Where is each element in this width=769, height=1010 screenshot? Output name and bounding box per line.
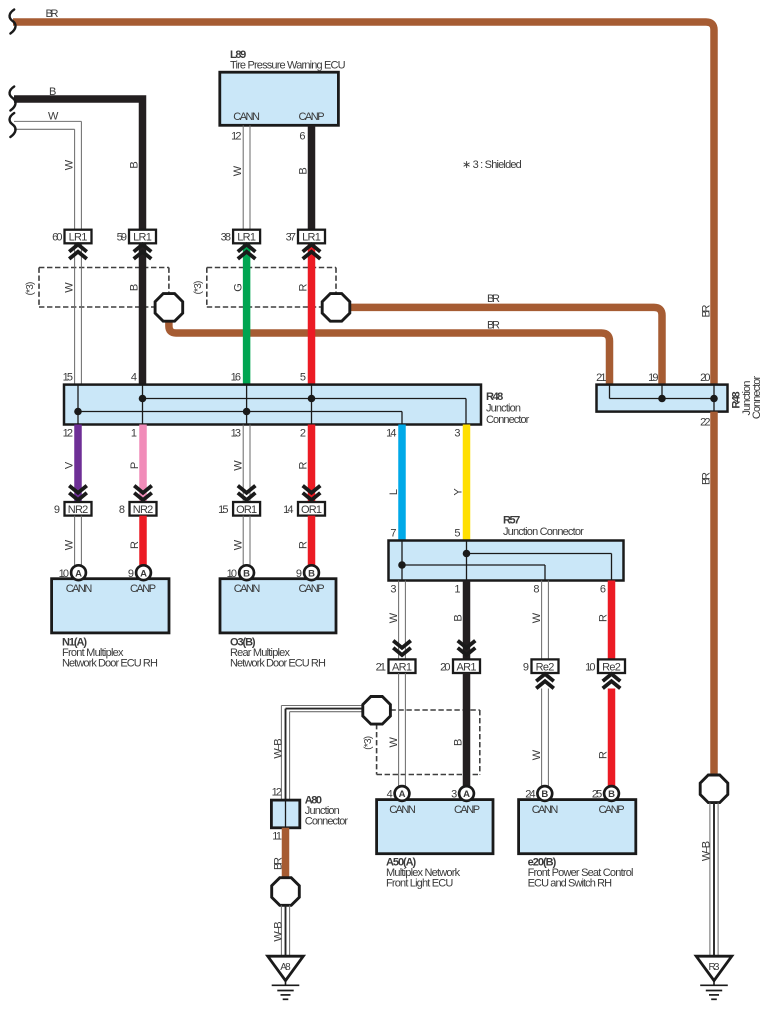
svg-text:B: B	[452, 739, 464, 746]
svg-text:1: 1	[454, 584, 460, 596]
svg-text:4: 4	[131, 372, 137, 384]
shield box (*3) label, upper middle	[193, 281, 204, 295]
svg-text:LR1: LR1	[302, 232, 321, 244]
junction dot pin 15	[74, 408, 82, 416]
svg-text:B: B	[128, 284, 140, 291]
terminal circle B pin 24 (e20)	[537, 786, 552, 801]
label W rotated above LR1 60	[64, 159, 76, 170]
label Connector (A80)	[305, 816, 349, 828]
svg-text:W: W	[388, 612, 400, 623]
svg-text:2: 2	[300, 428, 306, 440]
svg-text:R: R	[129, 541, 141, 549]
svg-text:20: 20	[700, 372, 710, 384]
terminal circle A pin 10 (N1)	[71, 565, 86, 580]
svg-text:60: 60	[52, 232, 62, 244]
label CANP inside O3	[298, 583, 324, 595]
label BR rotated (A80 drain)	[272, 857, 284, 870]
svg-text:W: W	[64, 282, 76, 293]
svg-text:3: 3	[390, 584, 396, 596]
label Front Power Seat Control	[528, 867, 634, 879]
R48 internal pass-through 5-2	[311, 385, 313, 425]
wire W-B from octagon 4 to ground A8	[281, 905, 289, 956]
svg-text:6: 6	[299, 131, 305, 143]
shield octagon 1 (W/B pair)	[155, 294, 183, 322]
wire W from LR1 60 to R48 pin 15	[75, 243, 82, 385]
svg-text:8: 8	[533, 584, 539, 596]
shield dashed box for W/B pair (net *3, upper left)	[39, 268, 169, 308]
svg-text:CANP: CANP	[130, 583, 156, 595]
R48 internal pass-through 15-12	[77, 385, 79, 425]
ECU box e20(B) Front Power Seat Control ECU and Switch RH	[519, 800, 636, 854]
label W rotated above AR1 21	[388, 612, 400, 623]
pin 3 label (R57)	[390, 584, 396, 596]
wire R from R48 pin 2 to OR1 14	[308, 425, 316, 502]
label CANP inside e20	[598, 804, 624, 816]
label R rotated above Re2 10	[597, 614, 609, 622]
svg-text:16: 16	[231, 372, 241, 384]
pin 59 label	[117, 232, 127, 244]
svg-text:Tire Pressure Warning ECU: Tire Pressure Warning ECU	[230, 60, 346, 72]
svg-text:W: W	[48, 111, 59, 123]
svg-text:38: 38	[221, 232, 231, 244]
svg-text:B: B	[541, 789, 548, 800]
pin 10 label (N1 CANN)	[59, 568, 69, 580]
label Junction (A80)	[305, 805, 340, 817]
wire BR shield drain from octagon 1 to right R48 pin 21	[169, 318, 610, 385]
label B rotated above AR1 20	[452, 614, 464, 621]
svg-text:W: W	[232, 165, 244, 176]
wire B from break to LR1 pin 59	[14, 99, 143, 230]
label B on horizontal wire	[49, 86, 56, 98]
label BR on top feed wire	[46, 8, 59, 20]
svg-text:Junction: Junction	[486, 403, 521, 415]
label N1(A)	[62, 637, 87, 649]
label CANN inside L89	[233, 111, 260, 123]
connector LR1 pin 59	[129, 230, 156, 244]
pin 22 label (right bar)	[700, 417, 710, 429]
chevron down above OR1 14	[303, 486, 321, 500]
svg-text:LR1: LR1	[69, 232, 88, 244]
label R rotated above O3 CANP	[297, 541, 309, 549]
R48 internal CANP bus line (pins 4,5,3)	[143, 399, 467, 425]
svg-text:(*3): (*3)	[25, 282, 36, 296]
svg-text:9: 9	[128, 568, 134, 580]
svg-text:W: W	[388, 736, 400, 747]
svg-text:20: 20	[440, 662, 450, 674]
svg-text:4: 4	[387, 789, 393, 801]
label Multiplex Network	[386, 867, 461, 879]
svg-text:BR: BR	[46, 8, 59, 20]
terminal circle B pin 25 (e20)	[604, 786, 619, 801]
svg-text:21: 21	[376, 662, 386, 674]
svg-text:10: 10	[227, 568, 237, 580]
break symbol on B wire	[10, 87, 16, 111]
wire R from R57 pin 6 to Re2 10	[608, 581, 616, 660]
svg-text:CANN: CANN	[532, 804, 559, 816]
svg-text:21: 21	[596, 372, 606, 384]
wire L from R48 pin 14 to R57 pin 7	[398, 425, 406, 541]
svg-text:19: 19	[648, 372, 658, 384]
label BR rotated below right R48	[700, 472, 712, 485]
label CANN inside e20	[532, 804, 559, 816]
wire W from R57 pin 3 to AR1 21	[399, 581, 406, 659]
junction dot pin 19 (right bar)	[658, 395, 666, 403]
break symbol on BR feed	[10, 10, 16, 34]
connector OR1 pin 14	[298, 502, 325, 516]
svg-text:W–B: W–B	[272, 738, 284, 758]
connector AR1 pin 20	[453, 659, 480, 673]
chevron up under LR1 38	[238, 245, 256, 259]
wire W from AR1 21 to A50 CANN	[399, 673, 406, 787]
R57 internal CANN line (pins 7,8)	[402, 565, 545, 581]
junction dot pin 5	[308, 395, 316, 403]
svg-text:12: 12	[231, 131, 241, 143]
svg-text:B: B	[308, 568, 315, 579]
terminal circle A pin 9 (N1)	[136, 565, 151, 580]
svg-text:7: 7	[390, 528, 396, 540]
wire W from R57 pin 8 to Re2 9	[542, 581, 549, 660]
svg-text:B: B	[452, 614, 464, 621]
junction connector R48 (left bar)	[64, 385, 481, 425]
svg-text:9: 9	[296, 568, 302, 580]
wire W from Re2 9 to e20 CANN	[542, 689, 549, 787]
svg-text:A: A	[75, 568, 82, 579]
svg-text:CANN: CANN	[234, 583, 261, 595]
wire BR from A80 pin 11 to octagon	[282, 828, 290, 879]
label R57	[503, 515, 520, 527]
label Connector right bar (rotated)	[751, 376, 763, 420]
label CANN inside A50	[389, 804, 416, 816]
pin 21 label (AR1)	[376, 662, 386, 674]
R48 internal pass-through 16-13	[246, 385, 248, 425]
pin 1 label	[131, 428, 137, 440]
pin 15 label (OR1)	[218, 504, 228, 516]
svg-text:11: 11	[272, 831, 282, 843]
label L rotated	[388, 489, 400, 495]
ground A8	[268, 956, 304, 999]
svg-text:R: R	[597, 751, 609, 759]
terminal circle A pin 3 (A50)	[459, 786, 474, 801]
svg-text:Junction Connector: Junction Connector	[503, 526, 584, 538]
shield octagon right (near R3)	[700, 775, 728, 803]
connector NR2 pin 9	[65, 502, 92, 516]
label Network Door ECU RH (O3)	[230, 658, 326, 670]
svg-text:10: 10	[585, 662, 595, 674]
svg-text:(*3): (*3)	[193, 281, 204, 295]
svg-text:LR1: LR1	[237, 232, 256, 244]
svg-text:A: A	[399, 789, 406, 800]
svg-text:6: 6	[600, 584, 606, 596]
label W-B rotated (right)	[700, 841, 712, 861]
wire BR shield drain from octagon 2 to right R48 pin 19	[348, 307, 662, 384]
ECU box N1(A) Front Multiplex Network Door ECU RH	[52, 579, 169, 633]
pin 20 label (right bar)	[700, 372, 710, 384]
shield dashed box for G/R pair (net *3, upper middle)	[207, 268, 336, 308]
pin 11 label (A80)	[272, 831, 282, 843]
shield dashed box for W/B pair at A50 (net *3)	[377, 710, 480, 775]
label e20(B)	[528, 857, 557, 869]
junction dot pin 16	[243, 408, 251, 416]
label B rotated (shielded B)	[128, 284, 140, 291]
pin 5 label (R57)	[454, 528, 460, 540]
wire R from OR1 14 to O3 CANP	[308, 516, 316, 566]
svg-text:3: 3	[454, 428, 460, 440]
wire V from R48 pin 12 to NR2 9	[74, 425, 82, 502]
wire W from L89 CANN to LR1 38	[243, 125, 250, 230]
label W rotated above O3 CANN	[232, 539, 244, 550]
svg-text:15: 15	[218, 504, 228, 516]
label R rotated above N1 CANP	[129, 541, 141, 549]
label Junction Connector (R57)	[503, 526, 584, 538]
pin 7 label (R57)	[390, 528, 396, 540]
svg-text:V: V	[64, 461, 76, 469]
terminal circle A pin 4 (A50)	[395, 786, 410, 801]
pin 10 label (O3 CANN)	[227, 568, 237, 580]
pin 15 label	[63, 372, 73, 384]
wire W-B from shield octagon to A80 pin 12	[281, 706, 362, 801]
connector AR1 pin 21	[389, 659, 416, 673]
svg-text:CANN: CANN	[389, 804, 416, 816]
connector LR1 pin 37	[298, 230, 325, 244]
pin 12 of L89	[231, 131, 241, 143]
svg-text:24: 24	[525, 789, 535, 801]
svg-text:25: 25	[592, 789, 602, 801]
pin 13 label	[231, 428, 241, 440]
label A80	[305, 795, 322, 807]
junction dot R57 pin 7	[398, 561, 406, 569]
pin 19 label (right bar)	[648, 372, 658, 384]
label P rotated	[129, 462, 141, 469]
chevron down above AR1 20	[458, 641, 476, 655]
svg-text:CANP: CANP	[454, 804, 480, 816]
R48 internal CANN bus line (pins 15,16,14)	[78, 412, 402, 425]
svg-text:CANN: CANN	[233, 111, 260, 123]
pin 25 label (e20 CANP)	[592, 789, 602, 801]
svg-text:BR: BR	[272, 857, 284, 870]
label BR on upper drain wire	[487, 293, 500, 305]
wire BR main feed (top, runs right and down right side)	[13, 22, 714, 385]
wire B from AR1 20 to A50 CANP	[463, 673, 471, 787]
label ECU and Switch RH	[528, 878, 613, 890]
pin 9 label (NR2)	[54, 504, 60, 516]
connector NR2 pin 8	[130, 502, 157, 516]
svg-text:∗ 3 : Shielded: ∗ 3 : Shielded	[462, 159, 522, 171]
svg-text:10: 10	[59, 568, 69, 580]
wire W-B from octagon to ground R3	[710, 803, 718, 957]
svg-text:A8: A8	[280, 962, 291, 973]
svg-text:CANP: CANP	[298, 111, 324, 123]
chevron up under Re2 10	[603, 674, 621, 688]
svg-text:22: 22	[700, 417, 710, 429]
svg-text:Connector: Connector	[486, 414, 530, 426]
wire R from NR2 8 to N1 CANP	[139, 516, 147, 566]
svg-text:15: 15	[63, 372, 73, 384]
label Junction (left bar)	[486, 403, 521, 415]
connector LR1 pin 60	[65, 230, 92, 244]
label B rotated below L89 CANP	[297, 167, 309, 174]
wire B from R57 pin 1 to AR1 20	[463, 581, 471, 659]
svg-text:9: 9	[523, 662, 529, 674]
R48 internal pass-through 4-1	[142, 385, 144, 425]
label Tire Pressure Warning ECU	[230, 60, 346, 72]
pin 9 label (N1 CANP)	[128, 568, 134, 580]
label CANP inside N1	[130, 583, 156, 595]
junction connector R57 bar	[389, 541, 624, 581]
svg-text:8: 8	[119, 504, 125, 516]
svg-text:Network Door ECU RH: Network Door ECU RH	[62, 658, 158, 670]
svg-text:BR: BR	[487, 293, 500, 305]
R48 right internal pin 20-22 pass-through	[713, 385, 715, 412]
pin 20 label (AR1)	[440, 662, 450, 674]
pin 6 of L89	[299, 131, 305, 143]
pin 14 label	[386, 428, 396, 440]
label W rotated above OR1 15	[232, 460, 244, 471]
label W on horizontal wire	[48, 111, 59, 123]
label L89	[230, 49, 246, 61]
svg-text:P: P	[129, 462, 141, 469]
svg-text:W–B: W–B	[700, 841, 712, 861]
wire B from L89 CANP to LR1 37	[308, 125, 316, 230]
connector Re2 pin 9	[532, 659, 559, 673]
svg-text:A: A	[140, 568, 147, 579]
pin 4 label (A50 CANN)	[387, 789, 393, 801]
pin 60 label	[52, 232, 62, 244]
svg-text:1: 1	[131, 428, 137, 440]
junction connector A80	[271, 800, 299, 828]
pin 24 label (e20 CANN)	[525, 789, 535, 801]
svg-text:Front Light ECU: Front Light ECU	[386, 878, 453, 890]
svg-text:BR: BR	[700, 304, 712, 317]
svg-text:B: B	[608, 789, 615, 800]
pin 3 label	[454, 428, 460, 440]
pin 21 label (right bar)	[596, 372, 606, 384]
label W rotated (e20 CANN)	[531, 749, 543, 760]
pin 12 label (A80)	[272, 787, 282, 799]
svg-text:R: R	[297, 461, 309, 469]
terminal circle B pin 10 (O3)	[239, 565, 254, 580]
label BR on lower drain wire	[487, 320, 500, 332]
svg-text:9: 9	[54, 504, 60, 516]
label R rotated above OR1 14	[297, 461, 309, 469]
svg-text:NR2: NR2	[68, 504, 89, 516]
svg-text:B: B	[128, 161, 140, 168]
pin 3 label (A50 CANP)	[451, 789, 457, 801]
ECU box A50(A) Multiplex Network Front Light ECU	[377, 800, 493, 854]
svg-text:R: R	[597, 614, 609, 622]
svg-text:W: W	[232, 460, 244, 471]
label R rotated (shielded R)	[297, 283, 309, 291]
pin 5 label	[300, 372, 306, 384]
svg-text:14: 14	[283, 504, 293, 516]
R57 internal CANP line (pins 5,6)	[467, 554, 612, 581]
label Front Light ECU	[386, 878, 453, 890]
chevron down above NR2 8	[134, 486, 152, 500]
svg-text:CANP: CANP	[298, 583, 324, 595]
svg-text:ECU and Switch RH: ECU and Switch RH	[528, 878, 613, 890]
label Network Door ECU RH	[62, 658, 158, 670]
pin 9 label (O3 CANP)	[296, 568, 302, 580]
wire B from LR1 59 to R48 pin 4	[139, 243, 147, 385]
label CANN inside O3	[234, 583, 261, 595]
pin 4 label	[131, 372, 137, 384]
wire W from R48 pin 13 to OR1 15	[243, 425, 250, 502]
chevron down above OR1 15	[238, 486, 256, 500]
R48 right internal line pin 21 to bus	[610, 385, 715, 399]
pin 14 label (OR1)	[283, 504, 293, 516]
svg-text:R: R	[297, 541, 309, 549]
svg-text:37: 37	[286, 232, 296, 244]
svg-text:12: 12	[63, 428, 73, 440]
shield box (*3) label, upper left	[25, 282, 36, 296]
svg-text:L: L	[388, 489, 400, 495]
svg-text:BR: BR	[487, 320, 500, 332]
svg-text:W: W	[232, 539, 244, 550]
svg-text:B: B	[49, 86, 56, 98]
svg-text:AR1: AR1	[392, 661, 412, 673]
terminal circle B pin 9 (O3)	[304, 565, 319, 580]
svg-text:LR1: LR1	[133, 232, 152, 244]
label BR rotated, right side above R48	[700, 304, 712, 317]
A80 internal pass-through 12-11	[285, 800, 287, 828]
label W-B rotated (to A8)	[272, 921, 284, 941]
pin 8 label (R57)	[533, 584, 539, 596]
label CANN inside N1	[66, 583, 93, 595]
shield octagon 4 (below A80)	[272, 878, 300, 906]
wire BR from R48 pin 22 to shield octagon (right)	[710, 412, 718, 776]
label B rotated (A50 CANP, shielded)	[452, 739, 464, 746]
chevron up under LR1 60	[69, 245, 87, 259]
label R48 right bar (rotated)	[731, 391, 743, 408]
pin 1 label (R57)	[454, 584, 460, 596]
label B rotated above LR1 59	[128, 161, 140, 168]
label W rotated below L89 CANN	[232, 165, 244, 176]
svg-text:NR2: NR2	[133, 504, 154, 516]
svg-text:59: 59	[117, 232, 127, 244]
svg-text:CANP: CANP	[598, 804, 624, 816]
svg-text:B: B	[297, 167, 309, 174]
svg-text:G: G	[232, 283, 244, 292]
svg-text:W: W	[64, 159, 76, 170]
label R rotated (e20 CANP)	[597, 751, 609, 759]
pin 37 label	[286, 232, 296, 244]
R57 internal pass-through 5-1	[466, 541, 468, 581]
svg-text:13: 13	[231, 428, 241, 440]
ground R3	[696, 956, 732, 999]
label W rotated (A50 CANN, shielded)	[388, 736, 400, 747]
svg-text:W: W	[64, 539, 76, 550]
wire P from R48 pin 1 to NR2 8	[139, 425, 147, 502]
label O3(B)	[230, 637, 256, 649]
chevron down above NR2 9	[69, 486, 87, 500]
svg-text:W–B: W–B	[272, 921, 284, 941]
label Connector (left bar)	[486, 414, 530, 426]
label Rear Multiplex	[230, 647, 291, 659]
chevron up under Re2 9	[536, 674, 554, 688]
pin 2 label	[300, 428, 306, 440]
R57 internal pass-through 7-3	[401, 541, 403, 581]
R48 right internal pin 19 stub	[661, 385, 663, 399]
svg-text:Y: Y	[452, 488, 464, 496]
chevron up under LR1 59	[134, 245, 152, 259]
label G rotated (shielded G)	[232, 283, 244, 292]
wire Y from R48 pin 3 to R57 pin 5	[463, 425, 471, 541]
svg-text:(*3): (*3)	[363, 736, 374, 750]
label W rotated above N1 CANN	[64, 539, 76, 550]
chevron up under LR1 37	[303, 245, 321, 259]
junction dot R57 pin 5	[463, 550, 471, 558]
pin 10 label (Re2)	[585, 662, 595, 674]
svg-text:B: B	[243, 568, 250, 579]
